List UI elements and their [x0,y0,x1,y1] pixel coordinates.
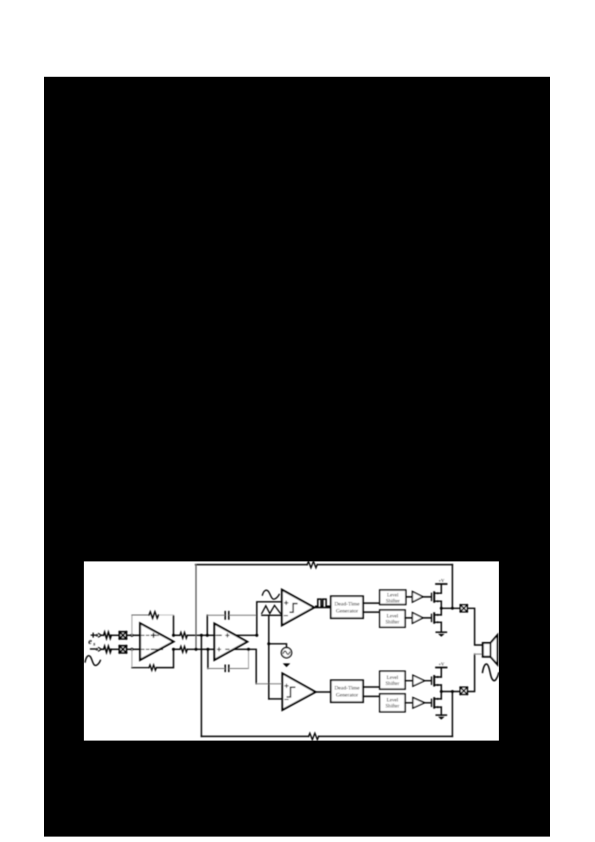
wire U2 out top to comparator 1 [235,602,282,636]
svg-text:e: e [88,637,92,646]
resistor R6 interstage bottom [180,646,187,652]
input plus terminal label [91,633,95,637]
svg-text:Shifter: Shifter [386,597,400,604]
svg-text:Shifter: Shifter [385,680,399,687]
wire bottom-rail left riser to top input node [200,635,202,736]
MOSFET Q2 low-side top bridge [432,608,442,632]
pulse train icon [316,599,330,606]
wire [126,648,140,650]
wire triangle distribution vertical [268,615,270,699]
wire top-rail right drop to output node A [451,565,453,609]
svg-text:Dead-Time: Dead-Time [334,686,360,692]
level shifter box 2b [380,694,405,712]
filter box X4 output bottom [460,687,467,694]
source label e_s [88,637,95,647]
stub to bottom integrator capacitor [207,649,209,668]
svg-text:+V: +V [438,578,445,583]
attenuator box X1 input top [119,632,126,639]
capacitor C1 integrator top feedback [225,612,229,619]
scanned black block [44,77,550,837]
wire to integrator bottom [187,648,214,650]
filter box X3 output top [460,605,467,612]
wire [111,634,120,636]
resistor R3 feedback top of U1 [131,615,133,635]
op-amp U2 integrator [214,624,247,660]
wire comp1 triangle input bar [262,614,282,616]
feedback rail top [196,564,453,566]
svg-text:Dead-Time: Dead-Time [334,602,360,608]
wire comp1 output [314,607,331,609]
supply +V bottom bridge [436,667,447,669]
wire U1 out top [174,634,180,636]
wire to integrator top [187,634,214,636]
node IN- junction [130,648,133,651]
driver buffer 2b [413,698,425,708]
triangle-wave icon on comparator 1 lower input [262,605,281,613]
oscillator arrow [283,663,291,667]
wire top input [101,634,103,636]
gate wires top chain [423,597,431,618]
wires DTG1 to level shifters [363,603,380,612]
wire comp2 triangle input [269,698,283,700]
node IN+ junction [130,634,133,637]
level shifter box 1a [380,590,406,605]
wire top-rail left drop to bottom input node [195,565,197,650]
output sine symbol [483,664,499,681]
svg-text:Generator: Generator [336,609,358,615]
resistor R1 input top [104,632,112,638]
svg-text:+V: +V [438,662,445,667]
level shifter box 1b [380,610,405,627]
resistor R2 input bottom [104,646,112,652]
wire U1 out bottom [174,648,180,650]
wire [111,648,120,650]
op-amp U1 differential input amplifier [140,623,173,660]
resistor R7 top feedback rail [307,561,317,567]
dead-time generator box 2 [331,680,363,702]
dead-time generator box 1 [331,596,363,618]
supply +V top bridge [436,583,447,585]
feedback rail bottom [201,735,452,737]
capacitor C2 integrator bottom feedback [225,665,229,671]
output node A [440,607,443,610]
output node B [440,690,443,693]
wire bottom-rail right riser to output node B [451,692,453,737]
svg-text:s: s [92,641,95,647]
sine icon above comparator 1 input [262,590,279,599]
MOSFET Q1 high-side top bridge [432,584,442,608]
speaker [483,635,498,665]
wires DTG2 to level shifters [363,687,380,696]
wire to oscillator [269,644,287,648]
stub to top integrator capacitor [206,615,208,635]
input terminal chevron top [96,635,98,637]
resistor R4 feedback bottom of U1 [131,649,133,667]
input terminal chevron bottom [96,649,98,651]
wire top cap path [207,614,256,616]
wire [126,634,140,636]
wire to speaker bottom [467,654,474,691]
ground bottom bridge [436,714,446,716]
wire bottom input [101,648,103,650]
attenuator box X2 input bottom [119,646,126,653]
white figure box [84,561,499,740]
resistor R8 bottom feedback rail [309,733,319,739]
svg-text:Shifter: Shifter [385,703,399,710]
wire to speaker top [467,608,482,645]
svg-text:Generator: Generator [336,693,358,699]
gate wires bottom chain [425,681,431,703]
comparator U4 [282,673,315,710]
wire bottom cap path [208,668,249,670]
oscillator (triangle wave generator) [281,648,291,658]
ground top bridge [436,631,446,633]
wires LS to drivers bottom chain [405,681,413,703]
AC source sine symbol [85,656,100,666]
driver buffer 1b [412,613,423,624]
resistor R5 interstage top [180,632,187,638]
driver buffer 1a [412,592,423,603]
driver buffer 2a [413,675,425,686]
junction dot oscillator [267,642,270,645]
input minus terminal label [91,648,95,650]
wires LS to drivers top chain [405,597,412,618]
MOSFET Q4 low-side bottom bridge [432,692,442,716]
svg-text:Shifter: Shifter [385,619,399,626]
wire comp2 output [316,691,331,693]
wire U2 out bottom down to comparator 2 [234,649,257,684]
comparator U3 [282,590,314,626]
MOSFET Q3 high-side bottom bridge [432,668,442,692]
level shifter box 2a [380,671,405,689]
